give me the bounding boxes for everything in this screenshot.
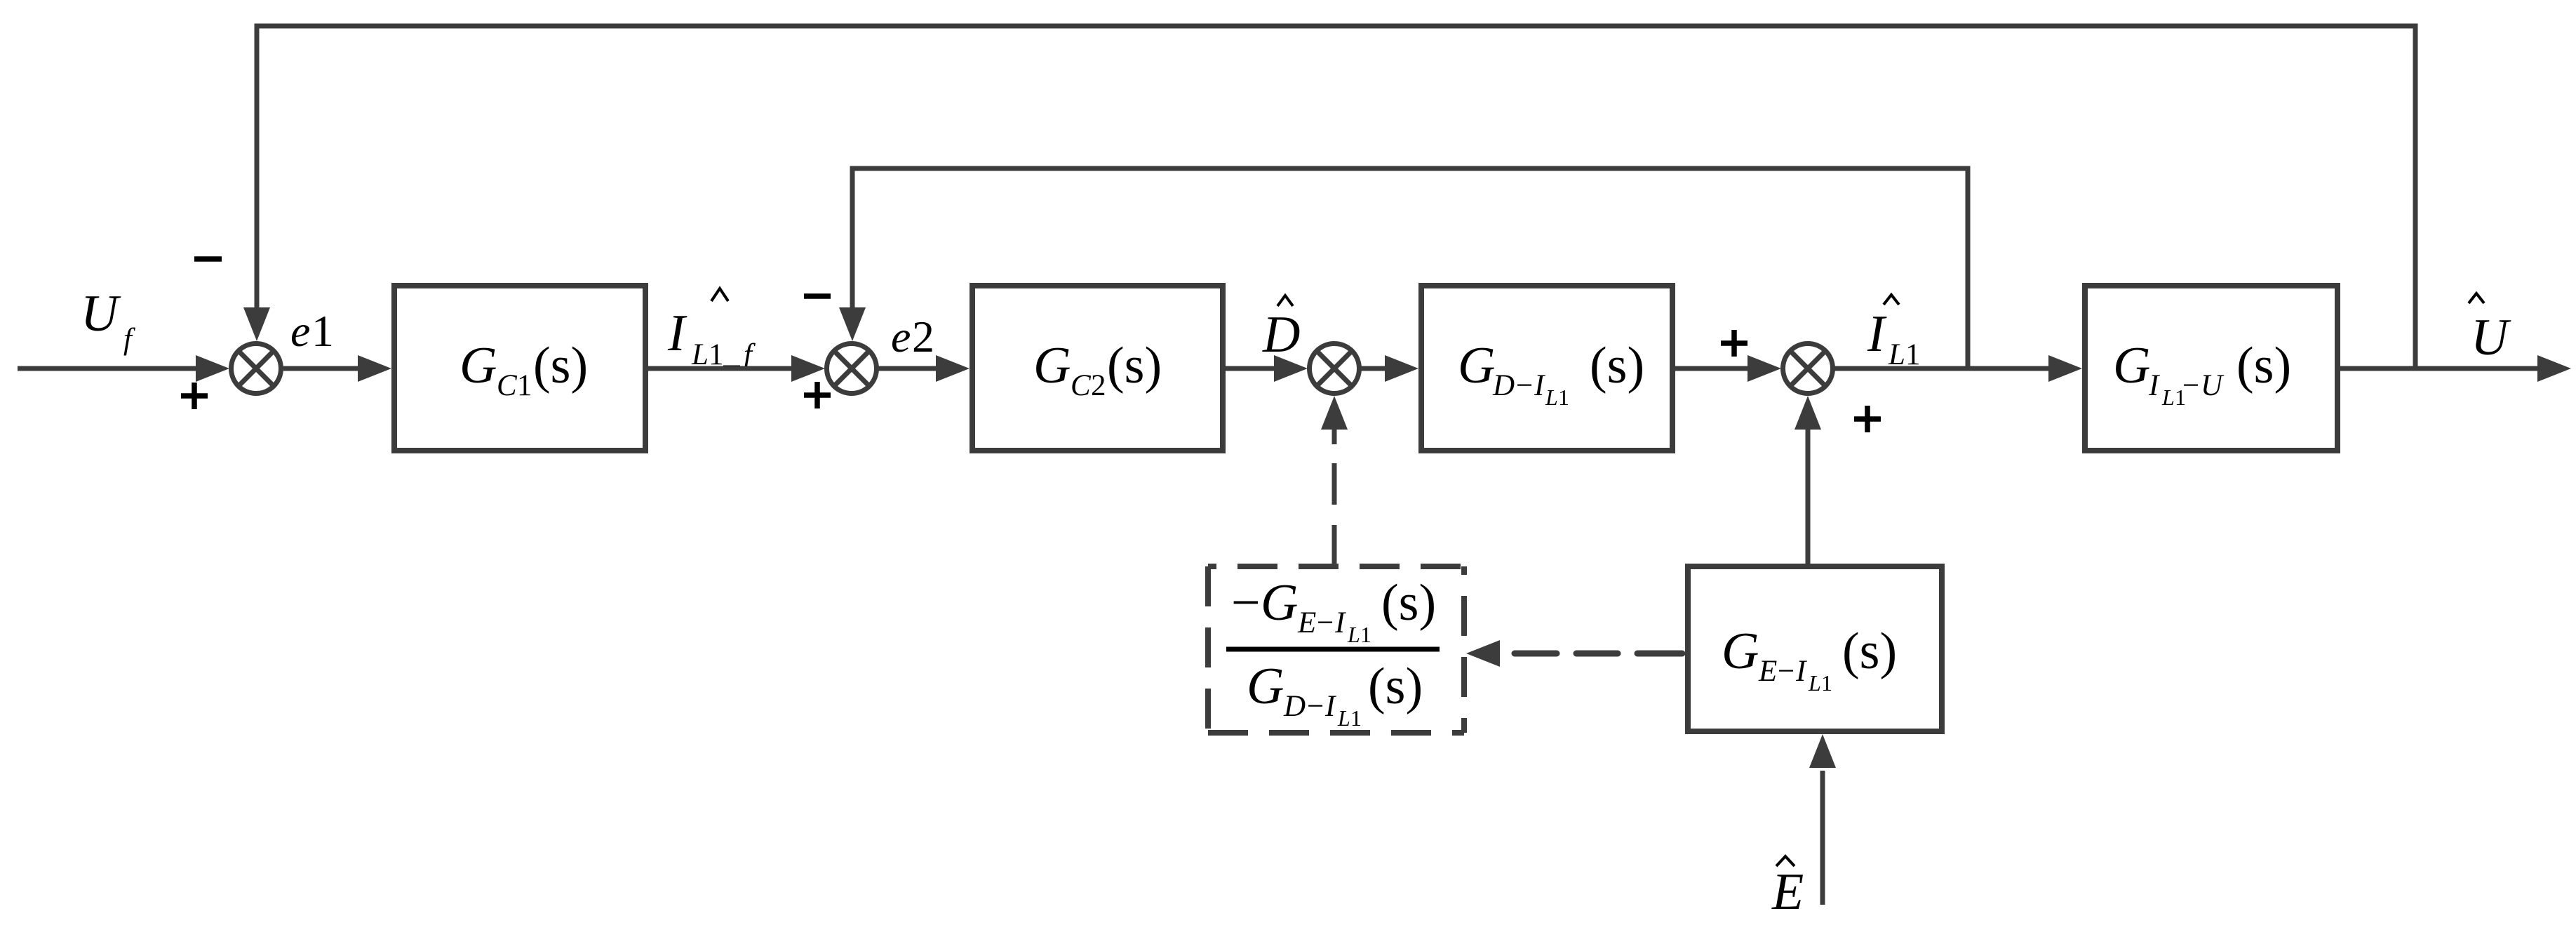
block GE-IL1 — [1688, 566, 1942, 731]
summing junction S4 — [1783, 344, 1833, 394]
block GC2 — [972, 286, 1223, 451]
arrowhead into S3 — [1274, 355, 1308, 382]
svg-text:C: C — [1071, 369, 1092, 402]
arrowhead dashed into compensation box — [1466, 640, 1500, 667]
svg-text:G: G — [1033, 337, 1071, 394]
svg-text:2: 2 — [1091, 369, 1106, 402]
arrowhead into S4 bottom — [1795, 396, 1821, 430]
svg-text:(s): (s) — [1590, 337, 1644, 394]
arrowhead into GC1 — [358, 355, 391, 382]
arrowhead outer feedback into S1 top — [243, 307, 270, 341]
svg-text:L: L — [1347, 622, 1360, 647]
svg-text:E: E — [1297, 606, 1316, 639]
multiplier junction S3 — [1310, 344, 1360, 394]
svg-text:I: I — [667, 305, 687, 362]
node e2 label — [891, 312, 934, 361]
svg-text:(s): (s) — [533, 337, 588, 394]
arrowhead into GC2 — [936, 355, 970, 382]
minus sign at S1 — [194, 256, 222, 262]
svg-text:D: D — [1492, 369, 1515, 402]
svg-text:2: 2 — [912, 312, 934, 361]
summing junction S1 — [232, 344, 281, 394]
minus sign at S2 — [804, 293, 831, 299]
svg-text:I: I — [1867, 305, 1887, 363]
wire S2 to block GC2 — [878, 366, 937, 371]
arrowhead dashed into S3 bottom — [1321, 396, 1348, 430]
wire inner feedback from IL1 tap to S2 — [852, 168, 1968, 368]
arrowhead output — [2537, 355, 2571, 382]
arrowhead into S1 — [196, 355, 229, 382]
wire GC1 to summing junction S2 — [645, 366, 793, 371]
svg-text:G: G — [2113, 337, 2150, 394]
svg-text:G: G — [1247, 658, 1284, 715]
svg-text:I: I — [1334, 606, 1346, 639]
svg-text:(s): (s) — [1368, 658, 1423, 715]
svg-text:G: G — [1722, 623, 1759, 680]
svg-text:1: 1 — [1821, 670, 1832, 696]
svg-text:G: G — [1458, 337, 1495, 394]
wire S3 to block GD-IL1 — [1361, 366, 1386, 371]
svg-text:−: − — [1516, 369, 1533, 402]
svg-text:I: I — [1324, 690, 1336, 723]
svg-text:1: 1 — [1558, 385, 1569, 410]
node Uf input label — [81, 285, 135, 356]
svg-text:L: L — [1337, 705, 1350, 731]
svg-text:U: U — [81, 285, 121, 343]
wire S4 to block GIL1-U with tap junction — [1834, 366, 2050, 371]
wire outer feedback from U-hat node to S1 — [257, 26, 2415, 368]
node E-hat label — [1771, 856, 1804, 921]
plus sign at S2 — [804, 382, 831, 408]
wire GIL1-U to output — [2337, 366, 2539, 371]
wire S1 to block GC1 — [283, 366, 361, 371]
svg-text:(s): (s) — [1842, 623, 1897, 680]
svg-text:D: D — [1262, 306, 1300, 364]
compensation fraction numerator -GE-IL1(s) — [1231, 574, 1436, 647]
svg-text:−: − — [1231, 574, 1261, 632]
svg-text:(s): (s) — [1381, 574, 1436, 632]
svg-text:(s): (s) — [2236, 337, 2291, 394]
arrowhead E-hat into GE-IL1 bottom — [1809, 734, 1836, 768]
svg-text:L: L — [1808, 670, 1821, 696]
node U-hat output label — [2469, 293, 2511, 366]
svg-text:I: I — [2148, 369, 2160, 402]
block GD-IL1 — [1421, 286, 1672, 451]
wire input Uf to summing junction S1 — [18, 366, 198, 371]
svg-text:D: D — [1283, 690, 1306, 723]
svg-text:I: I — [1534, 369, 1545, 402]
svg-text:1: 1 — [311, 306, 334, 356]
svg-text:L: L — [2161, 385, 2175, 410]
svg-text:(s): (s) — [1107, 337, 1162, 394]
svg-text:G: G — [459, 337, 497, 394]
wire GC2 to multiplier junction S3 — [1223, 366, 1275, 371]
node e1 label — [290, 306, 334, 356]
summing junction S2 — [827, 344, 877, 394]
arrowhead into S4 — [1747, 355, 1781, 382]
svg-text:1: 1 — [1360, 622, 1371, 647]
wire E-hat input into GE-IL1 — [1820, 771, 1825, 905]
wire GD-IL1 to summing junction S4 — [1672, 366, 1749, 371]
svg-text:e: e — [891, 312, 911, 361]
svg-text:G: G — [1261, 574, 1298, 632]
plus sign before S4 — [1721, 330, 1747, 357]
wire dashed from S3 down to compensation box — [1332, 429, 1337, 566]
dashed compensation box — [1208, 566, 1464, 733]
svg-text:−: − — [1317, 606, 1334, 639]
arrowhead into GD-IL1 — [1385, 355, 1418, 382]
svg-text:C: C — [497, 369, 518, 402]
svg-text:L: L — [1545, 385, 1558, 410]
svg-text:E: E — [1758, 655, 1777, 688]
node IL1-hat label — [1867, 295, 1921, 371]
svg-text:I: I — [1795, 655, 1807, 688]
node D-hat label — [1262, 295, 1300, 364]
plus sign below S4 — [1854, 406, 1881, 432]
svg-text:1: 1 — [517, 369, 532, 402]
svg-text:E: E — [1771, 863, 1804, 921]
compensation fraction denominator GD-IL1(s) — [1247, 658, 1423, 731]
svg-text:−: − — [1307, 690, 1324, 723]
node IL1_f label with hat — [667, 288, 756, 371]
arrowhead inner feedback into S2 top — [839, 307, 866, 341]
arrowhead into GIL1-U — [2048, 355, 2082, 382]
wire GE-IL1 up to S4 — [1806, 430, 1811, 566]
block GIL1-U — [2085, 286, 2337, 451]
svg-text:−: − — [2182, 369, 2199, 402]
arrowhead into S2 — [791, 355, 825, 382]
svg-text:e: e — [290, 306, 310, 356]
plus sign at S1 — [181, 383, 208, 409]
fraction bar — [1226, 647, 1440, 652]
block GC1 — [394, 286, 645, 451]
wire dashed from GE-IL1 block to compensation box — [1515, 651, 1682, 657]
svg-text:1: 1 — [1350, 705, 1362, 731]
svg-text:U: U — [2201, 369, 2225, 402]
svg-text:−: − — [1778, 655, 1795, 688]
svg-text:U: U — [2471, 309, 2511, 366]
